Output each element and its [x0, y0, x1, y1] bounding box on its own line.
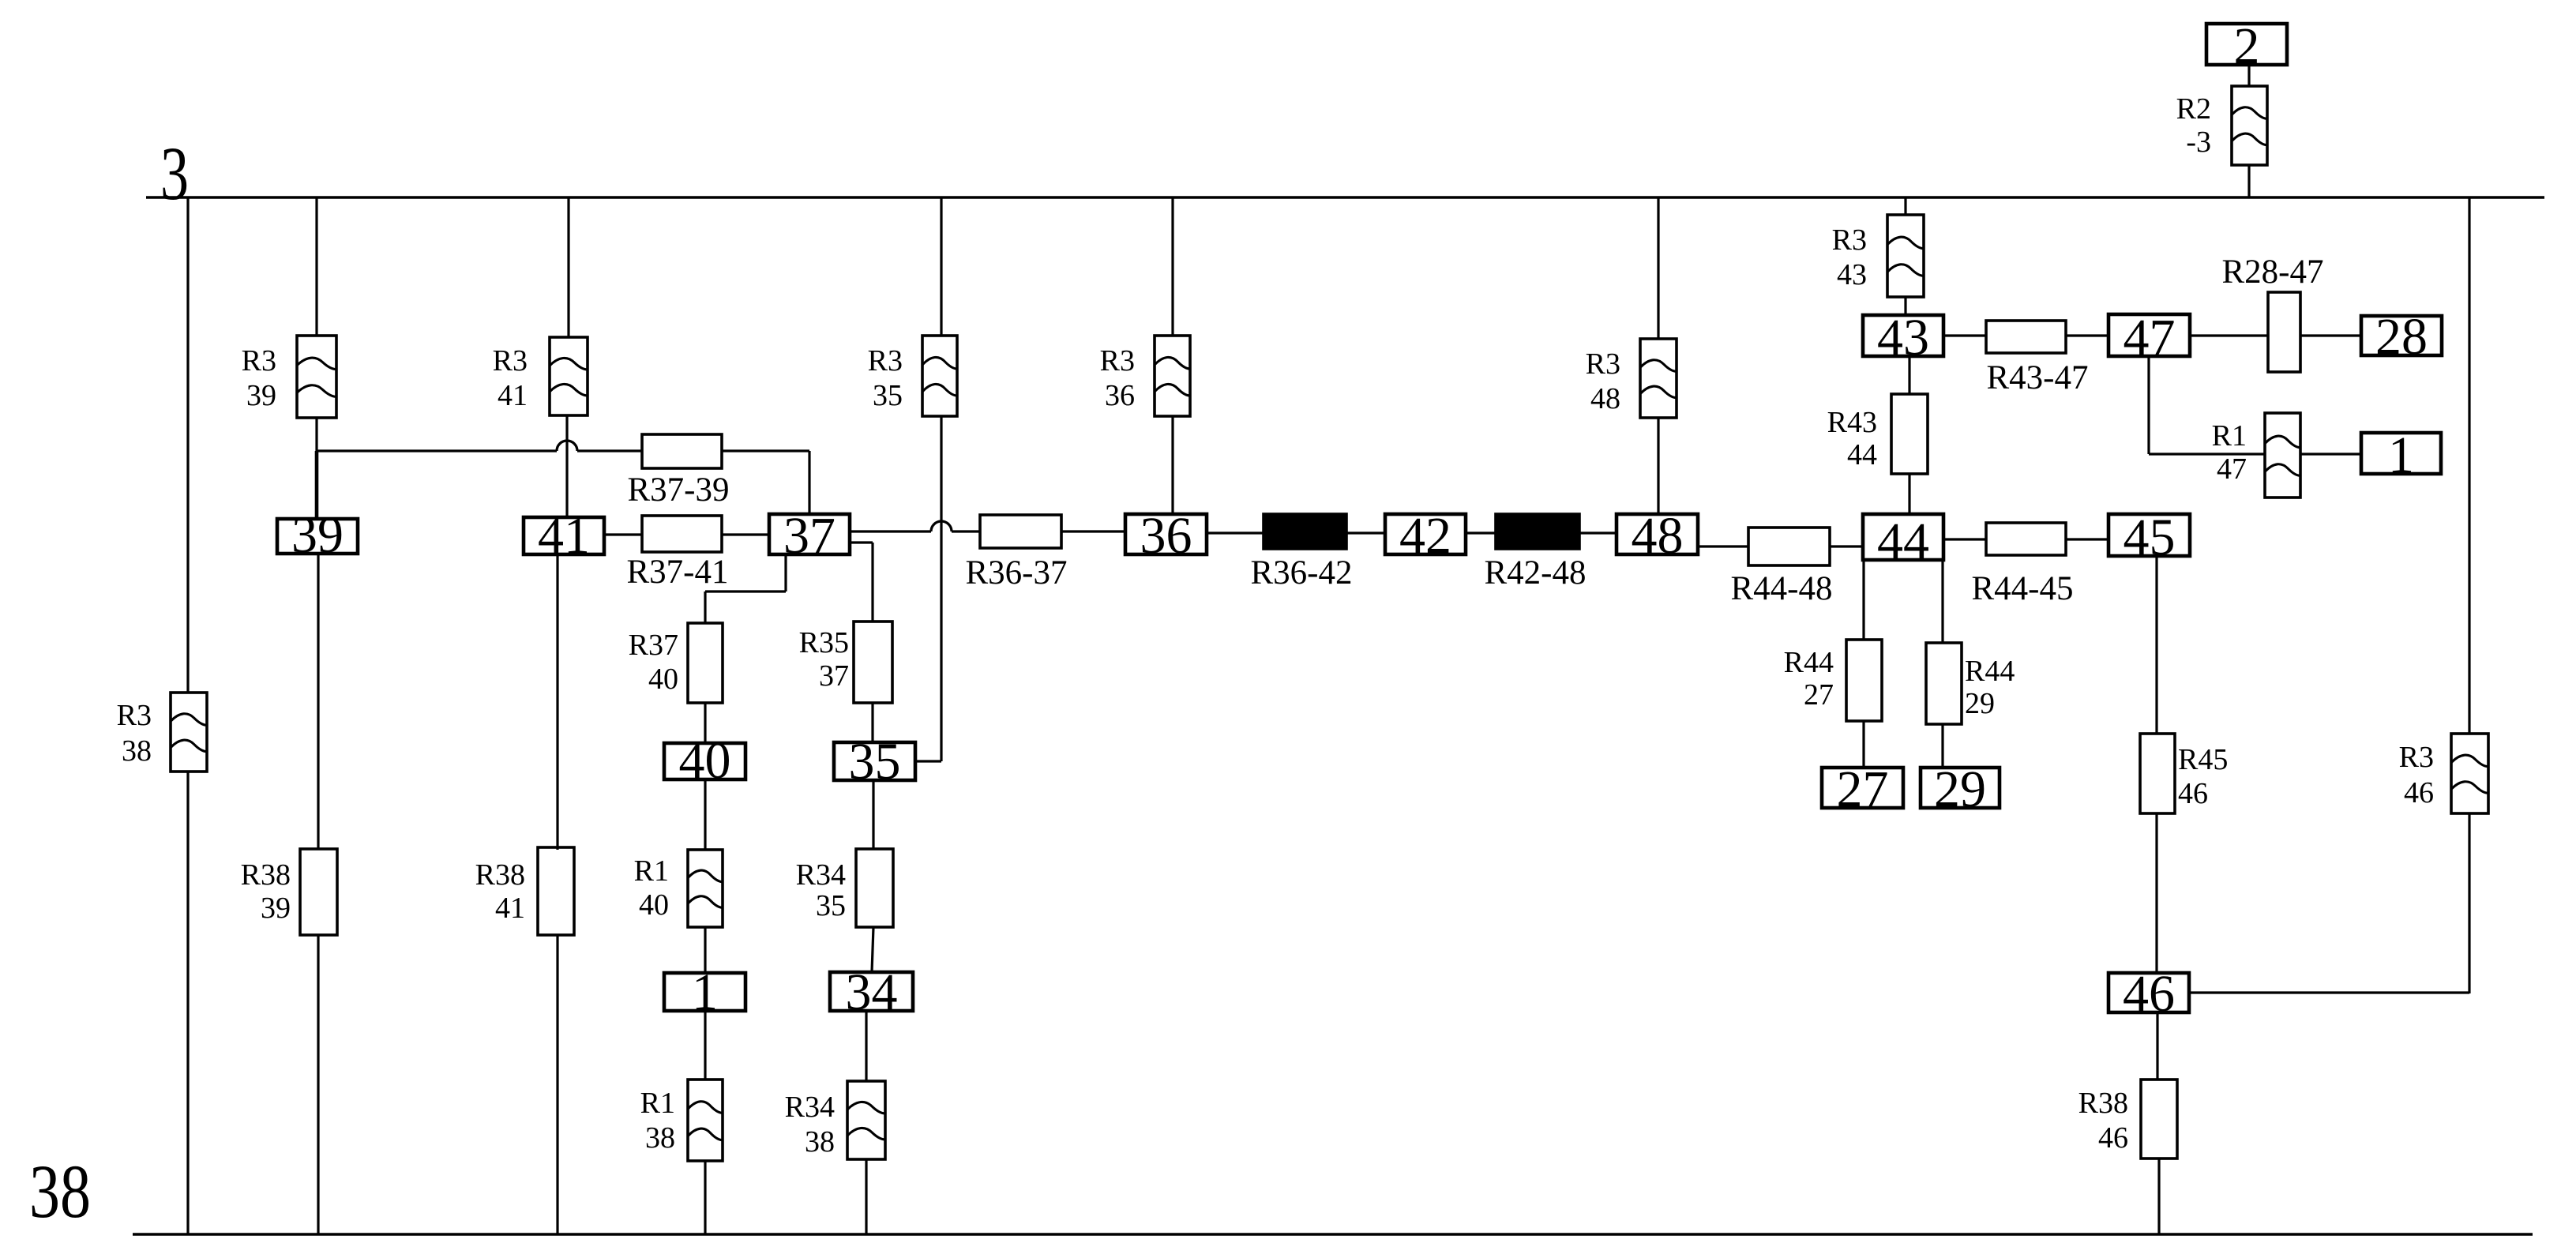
label R37 40: [629, 629, 678, 696]
wire R37-41 to node37: [722, 533, 769, 535]
svg-text:R44-45: R44-45: [1972, 570, 2074, 607]
svg-text:R38: R38: [2078, 1087, 2128, 1120]
wire node47 to R28-47: [2190, 334, 2268, 336]
label R3 43: [1832, 223, 1867, 291]
svg-text:R3: R3: [1586, 347, 1620, 381]
wire R44-29 to node29: [1941, 724, 1943, 768]
resistor R28-47: [2268, 292, 2300, 372]
wire node43 to R43-47: [1943, 334, 1986, 336]
wire hop to R37-39 box: [577, 449, 642, 452]
svg-text:R44: R44: [1784, 646, 1834, 679]
label R44 29: [1965, 655, 2015, 720]
wire node40 to R1-40: [704, 779, 706, 850]
svg-text:R37-39: R37-39: [628, 471, 730, 509]
resistor R36-42 (filled): [1264, 514, 1346, 549]
wire R3-39 to junction: [315, 418, 317, 451]
wire node44 to R44-29: [1941, 560, 1943, 643]
svg-text:39: 39: [246, 379, 276, 412]
resistor R45 46: [2140, 734, 2175, 813]
svg-text:R3: R3: [868, 344, 903, 377]
resistor R1 40: [688, 850, 723, 927]
svg-text:R36-37: R36-37: [966, 554, 1068, 591]
node 48: [1617, 507, 1698, 565]
wire R1-38 to bus38: [704, 1161, 706, 1234]
resistor R44-45: [1986, 523, 2066, 555]
svg-text:27: 27: [1837, 760, 1889, 818]
resistor R37 40: [688, 623, 723, 703]
svg-text:40: 40: [639, 888, 669, 922]
resistor R43 44: [1891, 394, 1928, 474]
resistor R3 36: [1155, 336, 1190, 416]
svg-text:R28-47: R28-47: [2222, 253, 2324, 291]
svg-text:34: 34: [846, 963, 898, 1021]
svg-text:R44: R44: [1965, 655, 2015, 688]
wire node46 to R38-46: [2156, 1012, 2158, 1080]
label R38 41: [475, 858, 525, 925]
node 47: [2108, 309, 2190, 366]
wire node37 to hop: [850, 530, 931, 532]
label R3 41: [493, 344, 528, 412]
resistor R37-41: [642, 516, 722, 552]
wire node1 to R1-38: [704, 1011, 706, 1080]
svg-text:37: 37: [783, 507, 836, 565]
svg-text:R44-48: R44-48: [1731, 570, 1833, 607]
wire node44 to R44-45: [1943, 538, 1986, 540]
wire R2--3 to bus3: [2247, 165, 2250, 197]
resistor R3 39: [297, 336, 336, 418]
svg-text:46: 46: [2404, 776, 2434, 809]
wire node37 right stub: [850, 541, 873, 543]
wire R44-27 to node27: [1862, 721, 1864, 768]
svg-text:29: 29: [1965, 687, 1995, 720]
wire R43-47 to node47: [2066, 334, 2108, 336]
svg-text:2: 2: [2234, 17, 2260, 75]
wire bus3 to R3-43: [1904, 197, 1906, 215]
svg-text:-3: -3: [2186, 126, 2211, 159]
wire bus3 to R3-36: [1171, 197, 1173, 336]
wire R38-39 to bus38: [317, 935, 319, 1234]
svg-text:46: 46: [2123, 965, 2175, 1023]
wire bus3 down right column: [2468, 197, 2470, 734]
svg-text:43: 43: [1837, 258, 1867, 291]
label R34 35: [796, 858, 846, 922]
svg-text:41: 41: [498, 379, 528, 412]
svg-text:35: 35: [816, 889, 846, 922]
wire R3-48 to node48: [1657, 418, 1659, 514]
label R2 -3: [2176, 92, 2211, 159]
wire node47 down: [2147, 356, 2150, 454]
wire bus3 to R3-39: [315, 197, 317, 336]
resistor R38 46: [2141, 1080, 2177, 1158]
svg-text:R34: R34: [785, 1091, 835, 1124]
svg-text:43: 43: [1877, 309, 1929, 366]
node 1 (right): [2361, 426, 2441, 484]
wire R43-44 to node44: [1908, 474, 1910, 514]
label R38 46: [2078, 1087, 2128, 1155]
svg-text:29: 29: [1934, 760, 1986, 818]
resistor R42-48 (filled): [1496, 514, 1579, 549]
svg-text:1: 1: [2388, 426, 2414, 484]
wire R36-37 to node36: [1061, 530, 1125, 532]
wire R37-39 left segment: [317, 449, 557, 452]
node 34: [830, 963, 913, 1021]
svg-text:48: 48: [1590, 382, 1620, 415]
wire R44-45 to node45: [2066, 538, 2108, 540]
svg-text:44: 44: [1877, 513, 1929, 570]
wire junction to node39: [315, 451, 319, 519]
wire bus3 to R3-41: [567, 197, 569, 337]
resistor R38 41: [538, 847, 574, 935]
svg-text:38: 38: [645, 1121, 675, 1155]
wire R3-46 down: [2468, 813, 2470, 993]
svg-text:R1: R1: [640, 1087, 675, 1120]
resistor R36-37: [980, 515, 1061, 548]
resistor R3 43: [1887, 215, 1924, 297]
svg-text:R2: R2: [2176, 92, 2211, 126]
wire stub down to R35-37: [871, 543, 873, 621]
svg-text:47: 47: [2217, 453, 2247, 486]
svg-text:38: 38: [805, 1125, 835, 1158]
node 39: [277, 506, 358, 564]
wire node36 to R36-42: [1207, 531, 1264, 534]
wire node2 to R2--3: [2247, 65, 2250, 86]
svg-text:R34: R34: [796, 858, 846, 892]
svg-text:41: 41: [495, 892, 525, 925]
resistor R34 35: [856, 849, 893, 927]
label R38 39: [241, 858, 291, 925]
wire R3-36 to node36: [1171, 416, 1173, 514]
wire node45 to R45-46: [2155, 556, 2157, 734]
wire node37 down: [784, 554, 787, 591]
svg-text:R45: R45: [2178, 743, 2228, 776]
node 28: [2361, 308, 2442, 366]
resistor R3 35: [922, 336, 957, 416]
wire 47-leg horizontal: [2149, 453, 2265, 455]
resistor R1 47: [2265, 413, 2300, 498]
wire node43 to R43-44: [1908, 356, 1910, 394]
bus 38 (bottom horizontal): [133, 1233, 2533, 1235]
label R45 46: [2178, 743, 2228, 810]
svg-text:28: 28: [2375, 308, 2428, 366]
svg-text:39: 39: [261, 892, 291, 925]
label R43 44: [1827, 406, 1877, 471]
wire node41 to R37-41: [604, 533, 642, 535]
wire right column to node46: [2189, 991, 2469, 993]
resistor R38 39: [300, 849, 337, 935]
label R3 46: [2399, 741, 2434, 809]
svg-text:R1: R1: [634, 854, 669, 888]
svg-text:R43-47: R43-47: [1987, 359, 2089, 396]
svg-text:R3: R3: [1832, 223, 1867, 257]
svg-text:R36-42: R36-42: [1251, 554, 1353, 591]
wire R45-46 to node46: [2155, 813, 2157, 973]
svg-text:38: 38: [29, 1149, 91, 1234]
svg-text:38: 38: [122, 734, 152, 768]
node 43: [1863, 309, 1943, 366]
label R44 27: [1784, 646, 1834, 712]
wire node34 to R34-38: [865, 1011, 867, 1081]
wire R35-37 to node35: [871, 703, 873, 742]
wire bus3 to R3-35: [940, 197, 942, 336]
wire node41 to R38-41: [556, 554, 558, 850]
wire node35 to R34-35: [872, 780, 874, 849]
resistor R3 41: [550, 337, 588, 415]
resistor R2 -3: [2232, 86, 2267, 165]
svg-text:41: 41: [538, 507, 590, 565]
resistor R3 38: [171, 693, 207, 772]
wire R38-46 to bus38: [2157, 1158, 2160, 1234]
svg-text:R43: R43: [1827, 406, 1877, 439]
wire node44 to R44-27: [1862, 560, 1864, 640]
wire R38-41 to bus38: [556, 935, 558, 1234]
resistor R35 37: [854, 621, 892, 703]
wire R44-48 to node44: [1830, 545, 1863, 547]
resistor R44 27: [1846, 640, 1882, 721]
svg-text:44: 44: [1847, 438, 1877, 471]
wire bus3 to R3-38: [186, 197, 189, 693]
svg-text:R3: R3: [493, 344, 528, 377]
svg-text:R37-41: R37-41: [627, 554, 729, 591]
svg-text:R42-48: R42-48: [1485, 554, 1587, 591]
svg-text:R38: R38: [241, 858, 291, 892]
node 37: [769, 507, 850, 565]
svg-text:R3: R3: [1100, 344, 1135, 377]
resistor R44-48: [1748, 528, 1830, 565]
resistor R44 29: [1926, 643, 1962, 724]
wire R37-39 to corner: [722, 449, 809, 452]
svg-text:R35: R35: [799, 626, 849, 659]
label R1 40: [634, 854, 669, 922]
svg-text:48: 48: [1632, 507, 1684, 565]
resistor R3 46: [2451, 734, 2488, 813]
label R34 38: [785, 1091, 835, 1158]
wire hop to R36-37: [952, 530, 980, 532]
svg-text:46: 46: [2098, 1121, 2128, 1155]
node 2: [2206, 17, 2287, 75]
wire node39 to R38-39: [317, 554, 319, 850]
label R3 48: [1586, 347, 1620, 415]
wire R34-38 to bus38: [865, 1159, 867, 1234]
svg-text:R37: R37: [629, 629, 678, 662]
wire bend into node35: [915, 760, 941, 762]
label R1 47: [2212, 419, 2247, 486]
svg-text:R38: R38: [475, 858, 525, 892]
node 40: [664, 732, 745, 790]
label R1 38: [640, 1087, 675, 1155]
resistor R37-39: [642, 434, 722, 468]
node 27: [1822, 760, 1903, 818]
resistor R34 38: [847, 1081, 885, 1159]
wire bus3 to R3-48: [1657, 197, 1659, 339]
node 42: [1385, 507, 1466, 565]
svg-text:27: 27: [1804, 678, 1834, 712]
svg-text:36: 36: [1140, 507, 1192, 565]
wire R3-43 to node43: [1904, 297, 1906, 315]
node 35: [834, 733, 915, 790]
resistor R43-47: [1986, 321, 2066, 353]
svg-text:36: 36: [1105, 379, 1135, 412]
wire R42-48 to node48: [1579, 531, 1617, 534]
node 36: [1125, 507, 1207, 565]
node 41: [524, 507, 604, 565]
wire R3-41 to node41: [565, 415, 568, 517]
wire hop over 35 column: [931, 521, 952, 531]
label R35 37: [799, 626, 849, 693]
svg-text:37: 37: [819, 659, 849, 693]
node 1 (left): [664, 963, 745, 1021]
wire hop over 41 column: [557, 441, 577, 451]
wire R3-38 to bus38: [186, 772, 189, 1234]
svg-text:R3: R3: [117, 699, 152, 732]
resistor R3 48: [1640, 339, 1677, 418]
svg-text:R3: R3: [2399, 741, 2434, 774]
wire R1-40 to node1: [704, 927, 706, 973]
label R3 35: [868, 344, 903, 412]
label R3 36: [1100, 344, 1135, 412]
node 46: [2108, 965, 2189, 1023]
svg-text:40: 40: [648, 663, 678, 696]
wire R28-47 to node28: [2300, 334, 2361, 336]
wire corner down to node37: [808, 451, 810, 514]
svg-text:42: 42: [1399, 507, 1451, 565]
wire R37-40 to node40: [704, 703, 706, 743]
wire jog down to R37-40: [704, 591, 706, 623]
node 44: [1863, 513, 1943, 570]
label R3 38: [117, 699, 152, 768]
svg-text:3: 3: [160, 131, 189, 216]
label R3 39: [242, 344, 276, 412]
svg-text:R1: R1: [2212, 419, 2247, 453]
wire R34-35 to node34: [872, 927, 873, 972]
wire R36-42 to node42: [1346, 531, 1385, 534]
svg-text:R3: R3: [242, 344, 276, 377]
wire node42 to R42-48: [1466, 531, 1496, 534]
resistor R1 38: [688, 1080, 723, 1161]
wire 37-jog horizontal: [705, 590, 786, 592]
wire R3-35 down to bend: [940, 416, 942, 761]
wire node48 to R44-48: [1698, 545, 1748, 547]
node 29: [1921, 760, 2000, 818]
bus 3 (top horizontal): [146, 196, 2544, 198]
svg-text:35: 35: [873, 379, 903, 412]
wire R1-47 to node1: [2300, 453, 2361, 455]
svg-text:45: 45: [2124, 509, 2176, 566]
node 45: [2108, 509, 2190, 566]
svg-text:46: 46: [2178, 777, 2208, 810]
